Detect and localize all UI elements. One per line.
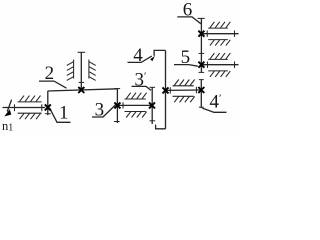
shaft I end tick right <box>41 104 43 111</box>
gear 5 bottom serif <box>199 71 205 73</box>
gear 4' top serif <box>199 79 204 81</box>
bearing B right plate <box>88 60 90 79</box>
shaft II top cap <box>78 51 86 53</box>
bearing B right hatch <box>89 62 96 81</box>
shaft III <box>117 104 152 106</box>
gear 6 / gear 5 mesh serif <box>199 52 205 54</box>
bearing E top hatch <box>210 22 230 28</box>
gear 6 top cap <box>198 17 205 19</box>
gear 2 hub serif <box>78 87 84 89</box>
leader label 3 <box>92 105 116 117</box>
gear 2 pitch line (on vertical shaft II) <box>48 89 118 91</box>
shaft IV tick right <box>195 87 197 93</box>
gear 1 bottom serif <box>45 113 51 115</box>
svg-text:4: 4 <box>133 45 143 66</box>
bearing D bottom hatch <box>174 97 194 103</box>
bearing F top hatch <box>210 53 230 59</box>
shaft V tick right <box>234 62 236 68</box>
shaft V tick left <box>207 62 209 68</box>
shaft I end tick left <box>14 104 16 111</box>
shaft VI tick right <box>234 31 236 37</box>
gear 4' pitch line <box>200 80 202 109</box>
bearing E bottom hatch <box>210 40 230 46</box>
mesh X gear5-shaftV <box>198 62 204 68</box>
gear 3 top serif <box>114 88 120 90</box>
mesh X gear3-shaftIII <box>114 102 120 108</box>
gear 5 / gear 6 common pitch column <box>200 18 202 72</box>
mesh X gear4'-shaftIV <box>198 87 204 93</box>
gear 4 top cap <box>154 50 165 56</box>
shaft VI <box>201 33 238 35</box>
gear 4 bottom cap <box>156 125 166 129</box>
bearing C top hatch <box>126 93 146 99</box>
leader label 6 <box>177 17 201 24</box>
mesh X gear1-shaftI <box>45 104 51 110</box>
bearing A top hatch <box>20 96 41 102</box>
gear 3' top serif <box>150 86 156 88</box>
shaft III tick <box>122 102 124 108</box>
svg-text:6: 6 <box>183 0 193 20</box>
leader label 5 <box>174 65 198 67</box>
bearing D bottom plate <box>173 95 194 97</box>
shaft II (vertical) <box>80 52 82 90</box>
mesh X gear3'-shaftIII <box>149 102 155 108</box>
svg-text:n1: n1 <box>2 119 13 133</box>
bearing E top plate <box>208 27 228 29</box>
shaft IV <box>166 89 202 91</box>
bearing F bottom hatch <box>210 71 230 77</box>
svg-text:1: 1 <box>59 103 69 124</box>
shaft II lower tick <box>79 81 85 83</box>
bearing D top hatch <box>174 80 194 86</box>
mesh X gear2-shaftII <box>78 87 84 93</box>
leader label 4 wedge <box>150 56 155 61</box>
gear 3 pitch line <box>116 88 118 123</box>
svg-text:3′: 3′ <box>135 69 147 90</box>
bearing B left hatch <box>67 62 74 81</box>
leader label 2 <box>39 81 67 88</box>
bearing C bottom plate <box>125 111 146 113</box>
rotation arrow n1 <box>7 100 11 112</box>
bearing B left plate <box>73 60 75 79</box>
bearing F top plate <box>208 58 228 60</box>
svg-text:2: 2 <box>45 63 55 84</box>
mesh X gear4-shaftIV <box>163 87 169 93</box>
leader label 3' <box>132 86 152 90</box>
svg-text:4′: 4′ <box>210 91 222 112</box>
shaft IV tick left <box>169 87 171 93</box>
gear 4 ring pitch line <box>165 50 167 128</box>
gear 1 pitch line <box>47 91 49 115</box>
bearing E bottom plate <box>208 39 228 41</box>
gear 3 bottom serif <box>114 121 120 123</box>
gear 3' bottom serif <box>150 120 156 122</box>
leader label 4 <box>128 56 152 62</box>
bearing A bottom hatch <box>20 113 41 119</box>
bearing A top plate <box>18 101 42 103</box>
svg-text:3: 3 <box>95 100 105 121</box>
shaft V <box>201 64 238 66</box>
bearing C top plate <box>125 98 146 100</box>
bearing C bottom hatch <box>126 112 146 118</box>
svg-text:5: 5 <box>181 47 191 68</box>
gear 3' pitch line <box>151 87 153 124</box>
shaft VI tick left <box>206 31 208 37</box>
shaft I (input shaft) <box>3 107 46 109</box>
mesh X gear6-shaftVI <box>198 31 204 37</box>
bearing F bottom plate <box>208 70 228 72</box>
leader label 4' <box>202 108 226 112</box>
bearing A bottom plate <box>18 112 42 114</box>
gear 4' bottom serif <box>199 106 204 108</box>
bearing D top plate <box>173 85 194 87</box>
leader label 1 <box>50 108 71 123</box>
